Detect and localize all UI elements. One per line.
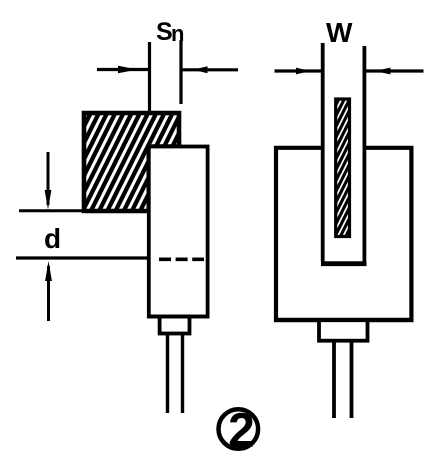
- neck below holder body (right view): [319, 320, 368, 341]
- svg-text:d: d: [44, 223, 61, 254]
- dimension line left (W): [275, 69, 322, 72]
- slot wall / extension line left (right view): [321, 43, 325, 262]
- line extending left from block bottom: [19, 209, 85, 212]
- probe body (left view): [149, 147, 208, 317]
- svg-text:2: 2: [228, 405, 255, 458]
- arrowhead pointing right (W left): [296, 68, 310, 75]
- slot wall / extension line right (right view): [362, 46, 366, 262]
- stem wires (right view): [332, 341, 336, 418]
- hatched blade in slot (right view): [262, 98, 420, 242]
- probe tip collar (left view): [160, 317, 190, 334]
- dimension line right (Sn): [181, 68, 238, 71]
- dimension line left (Sn): [97, 68, 148, 71]
- upper d arrow (pointing down): [45, 152, 52, 210]
- dashed centerline through probe: [159, 257, 204, 261]
- holder body (right view, open-top rectangle): [276, 148, 411, 320]
- arrowhead pointing left (Sn right): [193, 66, 208, 73]
- figure number circle: [219, 409, 259, 449]
- extension line right of Sn: [179, 40, 182, 104]
- probe stem wires (left view): [166, 334, 169, 414]
- arrowhead pointing right (Sn left): [118, 66, 138, 73]
- svg-text:W: W: [326, 17, 353, 48]
- slot bottom edge: [321, 261, 367, 266]
- body bottom edge overdraw: [274, 318, 413, 322]
- lower d reference line: [16, 256, 149, 259]
- extension line left of Sn: [148, 42, 151, 113]
- probe bottom edge overdraw: [147, 315, 210, 319]
- dimension line right (W): [366, 69, 424, 72]
- lower d arrow (pointing up): [45, 261, 52, 321]
- hatched block (workpiece, left view): [30, 108, 233, 218]
- arrowhead pointing left (W right): [375, 68, 391, 75]
